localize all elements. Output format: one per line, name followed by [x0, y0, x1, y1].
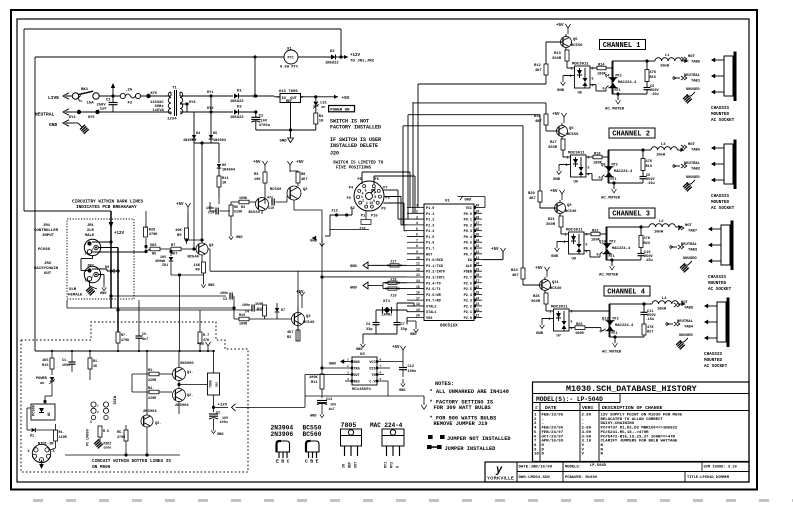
svg-text:15A: 15A — [87, 102, 95, 106]
svg-text:+12V: +12V — [218, 404, 228, 408]
svg-text:1: 1 — [85, 243, 87, 246]
svg-text:NEUTRAL: NEUTRAL — [677, 320, 694, 324]
svg-text:CHASSIS: CHASSIS — [711, 194, 729, 199]
svg-text:P2.1: P2.1 — [464, 311, 472, 315]
svg-text:22: 22 — [476, 308, 480, 312]
svg-text:R21: R21 — [548, 218, 556, 222]
svg-text:F2: F2 — [128, 102, 133, 106]
svg-text:Q1.: Q1. — [187, 371, 193, 375]
svg-text:JUMPER NOT INSTALLED: JUMPER NOT INSTALLED — [447, 436, 511, 442]
svg-text:+5V: +5V — [491, 248, 499, 252]
svg-text:GND: GND — [354, 361, 360, 365]
svg-text:1: 1 — [571, 67, 573, 71]
svg-text:INSTALLED DELETE: INSTALLED DELETE — [330, 143, 378, 149]
svg-text:MAC224-4: MAC224-4 — [614, 170, 633, 174]
svg-text:C: C — [287, 459, 290, 465]
svg-text:R28: R28 — [149, 229, 155, 233]
svg-text:GND: GND — [399, 389, 406, 393]
svg-text:CHASSIS: CHASSIS — [708, 275, 726, 280]
svg-text:19: 19 — [416, 308, 420, 312]
svg-text:T1: T1 — [172, 87, 177, 91]
svg-text:36: 36 — [476, 227, 480, 231]
svg-text:KY5: KY5 — [88, 116, 94, 120]
svg-text:4K7: 4K7 — [287, 331, 293, 335]
svg-text:ZD1: ZD1 — [162, 264, 168, 268]
svg-text:U1: U1 — [445, 200, 450, 204]
svg-text:8: 8 — [416, 244, 418, 248]
svg-text:CHANNEL 3: CHANNEL 3 — [612, 211, 650, 219]
svg-text:C10: C10 — [268, 207, 274, 211]
svg-text:C12: C12 — [408, 365, 414, 369]
svg-text:1N4004: 1N4004 — [222, 169, 236, 173]
svg-text:TAB7: TAB7 — [688, 230, 698, 234]
svg-text:3: 3 — [85, 253, 87, 256]
svg-text:MOC3011: MOC3011 — [568, 152, 585, 156]
svg-text:31: 31 — [476, 256, 480, 260]
svg-text:GND: GND — [100, 292, 107, 296]
svg-text:35: 35 — [476, 233, 480, 237]
svg-text:R4.: R4. — [148, 387, 154, 391]
svg-text:OUT: OUT — [354, 374, 360, 378]
svg-text:P6: P6 — [375, 178, 379, 182]
svg-text:27: 27 — [476, 279, 480, 283]
svg-text:U7: U7 — [557, 335, 562, 339]
svg-text:1: 1 — [550, 310, 552, 314]
svg-text:DIS: DIS — [369, 368, 375, 372]
svg-text:B: B — [281, 459, 284, 465]
svg-text:X: X — [90, 420, 92, 424]
svg-text:C: C — [305, 459, 308, 465]
svg-text:DWG:LM504.SCH: DWG:LM504.SCH — [519, 476, 551, 480]
svg-text:D1: D1 — [237, 90, 242, 94]
svg-text:1N5822: 1N5822 — [230, 100, 244, 104]
svg-text:33: 33 — [476, 244, 480, 248]
svg-text:GND: GND — [350, 265, 358, 269]
svg-text:5: 5 — [416, 227, 418, 231]
svg-text:P3.3/INT1: P3.3/INT1 — [426, 275, 445, 280]
svg-text:BC560: BC560 — [270, 188, 282, 192]
svg-text:MIDI: MIDI — [112, 396, 116, 405]
svg-text:INDICATES PCB BREAKAWAY: INDICATES PCB BREAKAWAY — [76, 205, 137, 210]
svg-text:100K: 100K — [309, 376, 318, 380]
svg-text:1: 1 — [565, 233, 567, 237]
svg-text:CIRCUIT WITHIN DOTTED LINES IS: CIRCUIT WITHIN DOTTED LINES IS — [92, 459, 171, 464]
svg-text:3: 3 — [347, 372, 349, 375]
svg-text:R3: R3 — [254, 173, 258, 177]
svg-text:C6.: C6. — [142, 333, 148, 337]
svg-text:360R: 360R — [255, 303, 264, 307]
svg-text:TAB4: TAB4 — [684, 326, 694, 330]
svg-text:AC.MUTED: AC.MUTED — [599, 274, 619, 278]
svg-text:360R: 360R — [546, 223, 556, 227]
svg-text:2N3904: 2N3904 — [175, 404, 189, 408]
svg-text:E: E — [276, 459, 279, 465]
svg-text:D7: D7 — [281, 309, 285, 313]
svg-text:47n: 47n — [267, 197, 273, 201]
svg-text:PC#5472-R15,19,23,27 100R==>47: PC#5472-R15,19,23,27 100R==>47R — [601, 434, 676, 439]
svg-text:SCM ISSUE: 3.10: SCM ISSUE: 3.10 — [704, 466, 737, 470]
svg-text:P1: P1 — [361, 214, 365, 218]
svg-text:+5V: +5V — [550, 190, 558, 194]
svg-text:J18: J18 — [390, 278, 396, 282]
svg-text:+5V: +5V — [342, 96, 350, 101]
svg-text:FEB/13/95: FEB/13/95 — [542, 413, 564, 418]
svg-text:4: 4 — [347, 378, 349, 381]
svg-text:1234: 1234 — [167, 118, 177, 122]
svg-text:P1.2: P1.2 — [426, 219, 434, 223]
svg-text:6: 6 — [571, 310, 573, 314]
svg-text:KY4: KY4 — [69, 116, 76, 120]
svg-text:29: 29 — [476, 267, 480, 271]
svg-text:37: 37 — [476, 221, 480, 225]
svg-text:+5V: +5V — [392, 346, 400, 350]
svg-text:GND: GND — [208, 284, 215, 288]
svg-text:C2.: C2. — [216, 412, 222, 416]
svg-text:TO JR1,JR2: TO JR1,JR2 — [350, 60, 375, 64]
svg-text:470K: 470K — [149, 233, 158, 237]
svg-text:+5V: +5V — [253, 161, 261, 165]
svg-text:R19: R19 — [257, 308, 263, 312]
svg-text:on: on — [321, 106, 325, 110]
svg-text:Q3: Q3 — [306, 315, 311, 319]
svg-text:C14: C14 — [208, 212, 214, 216]
svg-text:P3.7/RD: P3.7/RD — [426, 299, 441, 304]
svg-text:16: 16 — [416, 291, 420, 295]
svg-text:R15: R15 — [650, 76, 656, 80]
svg-text:4K7: 4K7 — [535, 69, 543, 73]
svg-text:REF: REF — [349, 462, 353, 468]
svg-text:15: 15 — [416, 285, 420, 289]
svg-text:R1.: R1. — [59, 431, 65, 435]
svg-text:2: 2 — [564, 240, 566, 244]
svg-text:P1.3: P1.3 — [426, 224, 434, 228]
svg-text:1: 1 — [416, 204, 418, 208]
svg-text:100n: 100n — [242, 304, 250, 308]
svg-text:Q4: Q4 — [605, 75, 610, 79]
svg-text:47K: 47K — [650, 71, 657, 75]
svg-text:L3: L3 — [661, 143, 666, 147]
svg-text:Q4: Q4 — [209, 244, 214, 248]
svg-text:7: 7 — [416, 238, 418, 242]
svg-text:2: 2 — [347, 365, 349, 368]
svg-text:6: 6 — [416, 233, 418, 237]
svg-text:180R: 180R — [239, 323, 248, 327]
svg-text:+5V: +5V — [296, 161, 304, 165]
svg-text:FEB/24/97: FEB/24/97 — [542, 430, 564, 435]
svg-text:MALE: MALE — [85, 234, 95, 238]
svg-text:U3: U3 — [360, 353, 365, 357]
svg-text:100n: 100n — [408, 370, 417, 374]
svg-text:1: 1 — [366, 201, 368, 205]
svg-text:MOUNTED: MOUNTED — [711, 200, 729, 205]
svg-text:PC LM809: PC LM809 — [87, 429, 91, 446]
svg-text:BC540: BC540 — [550, 287, 562, 291]
svg-text:R.5: R.5 — [103, 430, 109, 434]
svg-text:2N3906: 2N3906 — [271, 431, 294, 438]
svg-text:R17: R17 — [550, 141, 558, 145]
svg-text:4700u: 4700u — [259, 124, 271, 128]
svg-text:3: 3 — [85, 280, 87, 283]
svg-text:CHASSIS: CHASSIS — [711, 106, 729, 111]
svg-text:JR2: JR2 — [44, 262, 52, 266]
svg-text:P0.7: P0.7 — [464, 253, 472, 257]
svg-text:R23: R23 — [644, 242, 650, 246]
svg-text:NEUTRAL: NEUTRAL — [681, 243, 698, 247]
svg-text:GND: GND — [280, 140, 288, 144]
svg-text:14: 14 — [416, 279, 420, 283]
svg-text:TAB5: TAB5 — [691, 61, 701, 65]
svg-text:2N3906: 2N3906 — [180, 362, 194, 366]
svg-text:360R: 360R — [531, 300, 541, 304]
svg-text:CHASSIS: CHASSIS — [704, 352, 722, 357]
svg-text:3: 3 — [416, 215, 418, 219]
svg-text:JUMPER INSTALLED: JUMPER INSTALLED — [445, 446, 496, 452]
svg-text:2: 2 — [92, 249, 94, 252]
svg-text:+5V: +5V — [296, 291, 304, 295]
svg-text:SWITCH IS LIMITED TO: SWITCH IS LIMITED TO — [333, 162, 384, 166]
svg-text:P0.5: P0.5 — [464, 242, 472, 246]
svg-text:Q11: Q11 — [552, 281, 560, 285]
svg-text:10mH: 10mH — [656, 154, 666, 158]
svg-text:R10: R10 — [239, 314, 245, 318]
svg-text:MOUNTED: MOUNTED — [711, 112, 729, 117]
svg-text:JR1: JR1 — [43, 224, 51, 228]
svg-text:Q5: Q5 — [573, 38, 578, 42]
svg-text:M1030.SCH_DATABASE_HISTORY: M1030.SCH_DATABASE_HISTORY — [566, 384, 698, 394]
svg-text:47K: 47K — [646, 160, 653, 164]
svg-text:P3.6/WR: P3.6/WR — [426, 293, 442, 298]
svg-text:PCB&VER: M1030: PCB&VER: M1030 — [565, 476, 598, 480]
svg-text:GND: GND — [551, 255, 559, 259]
svg-text:PTC: PTC — [288, 57, 294, 61]
svg-text:P2.4: P2.4 — [464, 294, 472, 298]
svg-text:C7: C7 — [401, 323, 405, 327]
svg-text:47K: 47K — [203, 339, 210, 343]
svg-text:MT1: MT1 — [612, 332, 618, 336]
svg-text:GND: GND — [49, 122, 58, 128]
svg-text:4: 4 — [588, 173, 590, 177]
svg-text:25: 25 — [476, 291, 480, 295]
svg-text:10: 10 — [369, 201, 373, 205]
svg-text:DATE:JAN/16/99: DATE:JAN/16/99 — [519, 465, 553, 470]
svg-text:4n7: 4n7 — [142, 338, 148, 342]
svg-text:R7.: R7. — [121, 334, 127, 338]
svg-text:+5V: +5V — [176, 203, 184, 207]
svg-text:2: 2 — [570, 74, 572, 78]
svg-text:G: G — [599, 177, 601, 181]
svg-text:4K7: 4K7 — [512, 274, 520, 278]
svg-text:U6: U6 — [574, 181, 579, 185]
svg-text:510K: 510K — [234, 211, 243, 215]
svg-text:P0.3: P0.3 — [464, 230, 472, 234]
svg-text:220R: 220R — [148, 397, 157, 401]
svg-text:C1: C1 — [106, 99, 111, 103]
svg-text:115VA: 115VA — [153, 109, 165, 113]
svg-text:12: 12 — [416, 267, 420, 271]
svg-text:PC900: PC900 — [33, 405, 37, 416]
svg-text:MAC224-4: MAC224-4 — [618, 81, 637, 85]
svg-text:P2.5: P2.5 — [464, 288, 472, 292]
svg-text:R1: R1 — [319, 115, 324, 119]
svg-text:220R: 220R — [148, 379, 157, 383]
svg-text:AC SOCKET: AC SOCKET — [704, 364, 728, 369]
svg-text:R5: R5 — [234, 206, 238, 210]
svg-text:1K: 1K — [319, 120, 324, 124]
svg-text:NC: NC — [47, 412, 51, 416]
svg-text:BK1: BK1 — [81, 88, 89, 92]
svg-text:+5V: +5V — [535, 267, 543, 271]
svg-text:NEUTRAL: NEUTRAL — [684, 162, 701, 166]
svg-text:P2.2: P2.2 — [464, 305, 472, 309]
svg-text:MAC224-4: MAC224-4 — [612, 247, 631, 251]
svg-text:5: 5 — [571, 320, 573, 324]
svg-text:D9: D9 — [105, 266, 109, 270]
svg-text:P3: P3 — [347, 197, 351, 201]
svg-text:CHANNEL 2: CHANNEL 2 — [612, 131, 650, 139]
svg-text:TRG: TRG — [354, 368, 360, 372]
svg-text:OUT: OUT — [44, 272, 52, 276]
svg-text:U5: U5 — [578, 92, 583, 96]
svg-text:BC560: BC560 — [567, 133, 579, 137]
svg-text:R2: R2 — [287, 336, 291, 340]
svg-text:P2.6: P2.6 — [464, 282, 472, 286]
svg-text:HOT: HOT — [688, 55, 696, 59]
svg-text:BC560: BC560 — [249, 211, 261, 215]
svg-text:17: 17 — [416, 296, 420, 300]
svg-text:AC.MUTED: AC.MUTED — [601, 197, 621, 201]
svg-text:X1: X1 — [287, 48, 292, 52]
svg-text:38: 38 — [476, 215, 480, 219]
svg-text:ALE: ALE — [466, 265, 472, 269]
svg-text:AC.MUTED: AC.MUTED — [602, 351, 622, 355]
svg-text:UNUSED: UNUSED — [686, 88, 700, 92]
svg-text:360R: 360R — [552, 57, 562, 61]
svg-text:GND: GND — [217, 433, 224, 437]
svg-text:P9: P9 — [381, 208, 385, 212]
svg-text:GND: GND — [553, 178, 561, 182]
svg-text:.15u: .15u — [646, 318, 655, 322]
svg-text:7: 7 — [380, 365, 382, 368]
svg-text:5K6: 5K6 — [150, 244, 156, 248]
svg-text:100K: 100K — [239, 197, 248, 201]
svg-text:34: 34 — [476, 238, 480, 242]
svg-text:TAB6: TAB6 — [691, 149, 701, 153]
svg-text:KY8: KY8 — [189, 101, 195, 105]
svg-text:32: 32 — [476, 250, 480, 254]
svg-text:TAB2: TAB2 — [691, 168, 701, 172]
svg-text:P2.3: P2.3 — [464, 300, 472, 304]
svg-text:39: 39 — [476, 209, 480, 213]
svg-text:P1.1: P1.1 — [426, 213, 434, 217]
svg-text:MAC224-4: MAC224-4 — [615, 324, 634, 328]
svg-text:10: 10 — [416, 256, 420, 260]
svg-text:2: 2 — [416, 209, 418, 213]
svg-text:470R: 470R — [117, 436, 126, 440]
svg-text:HOT: HOT — [688, 143, 696, 147]
svg-text:PC#4737 D1,D2,D3 MBR160==>1N58: PC#4737 D1,D2,D3 MBR160==>1N5822 — [601, 426, 678, 431]
svg-text:4K7: 4K7 — [535, 120, 543, 124]
svg-text:FACTORY INSTALLED: FACTORY INSTALLED — [330, 125, 381, 131]
svg-text:6: 6 — [371, 188, 373, 192]
svg-text:5: 5 — [380, 378, 382, 381]
svg-text:LIVE: LIVE — [48, 95, 59, 101]
svg-text:47K: 47K — [647, 326, 654, 330]
svg-text:PC608: PC608 — [38, 248, 51, 252]
svg-text:6: 6 — [380, 372, 382, 375]
svg-text:4: 4 — [416, 221, 418, 225]
svg-text:Q6: Q6 — [569, 127, 574, 131]
svg-text:FEB/23/95: FEB/23/95 — [542, 426, 564, 431]
svg-text:13: 13 — [416, 273, 420, 277]
svg-text:30: 30 — [476, 262, 480, 266]
svg-text:100n: 100n — [220, 292, 228, 296]
svg-text:REF: REF — [286, 100, 292, 104]
svg-text:AC.MUTED: AC.MUTED — [605, 108, 625, 112]
svg-text:MT1: MT1 — [385, 462, 389, 468]
svg-text:AC SOCKET: AC SOCKET — [711, 206, 735, 211]
svg-text:47K: 47K — [644, 237, 651, 241]
svg-text:6: 6 — [586, 233, 588, 237]
svg-text:+5V: +5V — [552, 113, 560, 117]
svg-text:R8: R8 — [301, 173, 305, 177]
svg-text:4K7: 4K7 — [529, 197, 537, 201]
svg-text:MOUNTED: MOUNTED — [708, 281, 726, 286]
svg-text:CIRCUITRY WITHIN DARK LINES: CIRCUITRY WITHIN DARK LINES — [72, 200, 144, 205]
svg-text:P5: P5 — [357, 178, 361, 182]
svg-text:L1: L1 — [665, 54, 670, 58]
svg-text:D5: D5 — [213, 132, 217, 136]
svg-text:JR1: JR1 — [87, 224, 95, 228]
svg-text:26: 26 — [476, 285, 480, 289]
svg-text:P0.1: P0.1 — [464, 219, 472, 223]
svg-text:2: 2 — [97, 411, 99, 414]
svg-text:P0.0: P0.0 — [464, 213, 472, 217]
svg-text:D6: D6 — [222, 164, 226, 168]
svg-text:L4: L4 — [662, 297, 667, 301]
svg-text:10mH: 10mH — [654, 231, 664, 235]
svg-text:R.7: R.7 — [203, 334, 209, 338]
svg-text:.15u: .15u — [646, 182, 655, 186]
svg-text:GND: GND — [310, 415, 317, 419]
svg-text:GND: GND — [557, 89, 565, 93]
svg-text:B: B — [310, 459, 313, 465]
svg-text:AC SOCKET: AC SOCKET — [711, 118, 735, 123]
svg-text:R27: R27 — [647, 331, 653, 335]
svg-text:P1.4: P1.4 — [426, 230, 434, 234]
svg-text:MOC3011: MOC3011 — [566, 229, 583, 233]
svg-text:P1.5: P1.5 — [426, 236, 434, 240]
svg-text:P0.6: P0.6 — [464, 248, 472, 252]
svg-text:R1.: R1. — [93, 360, 99, 364]
svg-text:PC#5241-R5,18-->470R: PC#5241-R5,18-->470R — [601, 430, 650, 435]
svg-text:UNUSED: UNUSED — [686, 176, 700, 180]
svg-text:360R: 360R — [548, 146, 558, 150]
svg-text:Q3.: Q3. — [155, 422, 161, 426]
svg-text:R9: R9 — [196, 269, 200, 273]
svg-text:GND: GND — [236, 236, 243, 240]
svg-text:6: 6 — [592, 67, 594, 71]
svg-text:KY6: KY6 — [151, 92, 157, 96]
svg-text:23: 23 — [476, 302, 480, 306]
svg-text:0.5A PTC: 0.5A PTC — [280, 66, 299, 70]
svg-text:LP-504D: LP-504D — [590, 464, 607, 468]
svg-text:4K7: 4K7 — [301, 178, 307, 182]
svg-text:REG: REG — [216, 382, 219, 387]
svg-text:R9: R9 — [177, 234, 182, 238]
svg-text:MT2: MT2 — [610, 241, 616, 245]
svg-text:R6: R6 — [152, 253, 156, 257]
svg-text:.2A: .2A — [125, 89, 133, 93]
